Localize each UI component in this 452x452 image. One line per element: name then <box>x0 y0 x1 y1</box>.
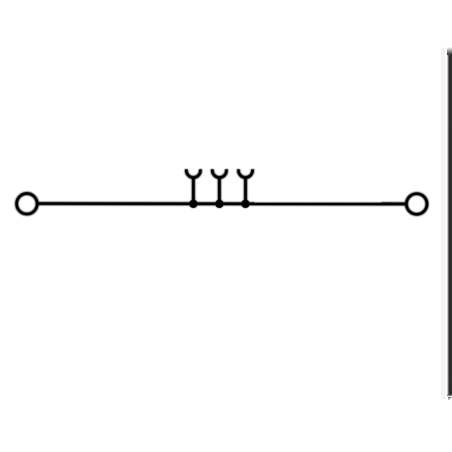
faint divider strip left of right bar <box>441 48 446 399</box>
small gray flecks below bar <box>448 397 451 398</box>
schematic crisp core layer <box>17 169 427 214</box>
right edge dark bar: bottom cap <box>447 395 452 397</box>
right edge dark bar: left edge ramp <box>447 55 449 395</box>
right edge dark bar: soft top cap <box>447 47 452 55</box>
schematic soft halo layer <box>17 169 427 214</box>
right edge dark bar: solid body <box>449 55 452 395</box>
